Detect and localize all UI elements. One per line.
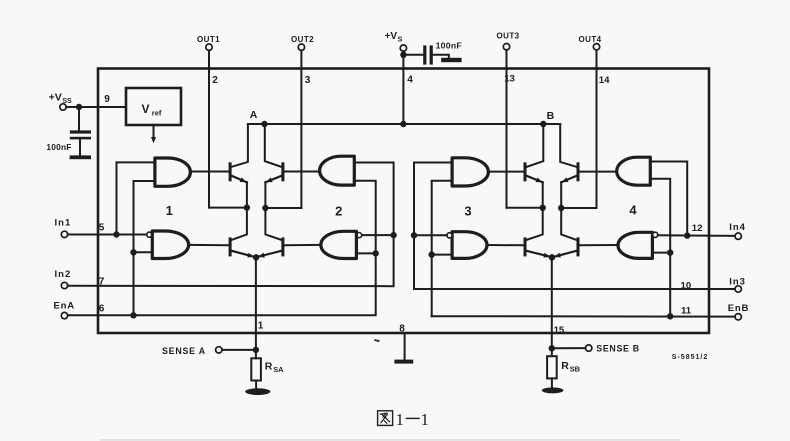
transistor Q8 (bridge B lower-right): [553, 237, 580, 257]
wire gate4-upper output to Q7 base: [580, 171, 617, 173]
svg-text:1: 1: [166, 203, 173, 218]
svg-text:9: 9: [104, 94, 110, 105]
junction +Vs cap tap: [400, 52, 406, 58]
svg-text:In4: In4: [729, 222, 746, 233]
AND gate 4 lower: [618, 232, 652, 258]
wire to resistor RSA: [255, 350, 257, 358]
wire mid-left down to Q2: [232, 208, 247, 240]
svg-text:1: 1: [421, 410, 430, 429]
svg-text:100nF: 100nF: [436, 40, 462, 50]
wire In3 inverted into gate3 lower: [414, 234, 447, 236]
label 100nF (top): [436, 40, 462, 50]
wire EnB feed block3: [432, 181, 452, 316]
wire OUT4 to bridge-B right node: [561, 207, 596, 209]
transistor Q7 (bridge B upper-right): [561, 162, 579, 182]
terminal OUT3: [497, 32, 520, 50]
svg-text:OUT4: OUT4: [579, 35, 602, 44]
junction bridge B bottom node: [549, 254, 555, 260]
svg-text:In1: In1: [55, 218, 72, 229]
wire sense B: [552, 347, 586, 349]
pin 7 label: [99, 277, 105, 288]
wire Vss to capacitor C1: [78, 107, 80, 130]
svg-text:OUT1: OUT1: [197, 35, 220, 44]
wire OUT2 pin3 vertical: [300, 50, 302, 208]
terminal SENSE A: [162, 346, 222, 356]
terminal EnA: [54, 301, 75, 319]
pin 4 label: [407, 75, 413, 86]
svg-text:4: 4: [629, 203, 637, 218]
junction bridge B mid-right (OUT4): [558, 205, 564, 211]
AND gate 3 upper: [452, 158, 488, 186]
wire capacitor C2 to ground: [433, 55, 449, 58]
wire gate2-lower output to Q4 base: [284, 244, 320, 246]
pin 2 label: [212, 75, 218, 86]
junction In2 feed at gate2 bubble line: [390, 232, 396, 238]
wire supply rail (A to B): [248, 123, 560, 125]
terminal In3: [729, 276, 746, 292]
wire +Vss to Vref pin9: [66, 106, 126, 108]
wire gate2-upper output to Q3 base: [284, 171, 319, 173]
pin 10 label: [681, 281, 692, 292]
drawing number S-5851/2: [672, 354, 708, 361]
wire In1 feed up to gate1 upper: [117, 162, 155, 234]
wire EnB tap into gate4 lower: [652, 252, 670, 254]
svg-text:2: 2: [212, 75, 218, 86]
pin 5 label: [99, 223, 105, 234]
svg-text:14: 14: [599, 75, 610, 86]
inverter bubble gate2 lower: [357, 233, 362, 238]
Vref output arrow: [151, 125, 156, 143]
AND gate 4 upper: [617, 157, 651, 185]
terminal In1: [55, 218, 72, 238]
wire B mid-right down to Q8: [561, 208, 576, 240]
wire +Vs pin4 vertical: [402, 51, 404, 124]
junction bridge A mid-right (OUT2): [262, 205, 268, 211]
AND gate 2 lower: [321, 231, 357, 258]
svg-text:+V: +V: [49, 92, 62, 104]
junction EnA feed to gate1: [130, 312, 136, 318]
svg-text:6: 6: [99, 304, 105, 315]
label 100nF (left): [46, 142, 71, 152]
wire mid-right down to Q4: [265, 208, 281, 240]
junction Vss cap tap: [76, 104, 82, 110]
svg-text:A: A: [250, 109, 258, 121]
block 3 label: [464, 204, 471, 219]
wire gate4-lower output to Q8 base: [580, 244, 618, 246]
pin 8 label: [399, 324, 405, 335]
junction EnA tap gate1 lower: [130, 249, 136, 255]
transistor Q1 (bridge A upper-left): [229, 162, 247, 182]
svg-text:SENSE A: SENSE A: [162, 346, 206, 356]
wire node B right branch: [543, 124, 576, 167]
AND gate 1 upper: [155, 158, 191, 186]
wire capacitor C1 to ground: [79, 139, 81, 155]
svg-text:3: 3: [464, 204, 471, 219]
terminal In4: [729, 222, 746, 239]
wire node A left branch: [232, 124, 265, 167]
junction In1 feed: [113, 231, 119, 237]
wire Q7 emitter down: [560, 182, 562, 208]
wire RSB to ground: [551, 378, 553, 388]
wire gate3-lower output to Q6 base: [487, 244, 524, 246]
inverter bubble gate4 lower: [653, 232, 658, 237]
wire pin8 to ground: [404, 334, 406, 359]
transistor Q2 (bridge A lower-left): [229, 237, 256, 257]
capacitor C2 100nF plates: [423, 45, 433, 64]
svg-text:2: 2: [335, 204, 342, 219]
svg-text:SA: SA: [273, 365, 284, 374]
junction supply rail at +Vs: [400, 121, 406, 127]
caption 图1-1: [378, 410, 429, 429]
junction EnB tap gate4 lower: [667, 249, 673, 255]
pin 14 label: [599, 75, 610, 86]
wire bridge B bottom to sense pin15: [551, 257, 553, 348]
capacitor C1 100nF plates: [70, 130, 91, 139]
wire node A center branch: [265, 124, 281, 167]
wire gate1-lower output to Q2 base: [189, 244, 229, 246]
wire RSA to ground: [255, 381, 257, 389]
svg-text:In2: In2: [55, 269, 72, 280]
svg-text:100nF: 100nF: [46, 142, 71, 152]
block 2 label: [335, 204, 342, 219]
terminal +Vs: [385, 31, 407, 51]
svg-text:4: 4: [407, 75, 413, 86]
terminal OUT2: [291, 35, 314, 51]
Vref block U1: [126, 88, 181, 125]
wire to resistor RSB: [551, 348, 553, 356]
svg-text:R: R: [561, 360, 569, 372]
wire node B center branch: [527, 124, 544, 167]
svg-text:10: 10: [681, 281, 692, 292]
svg-text:OUT3: OUT3: [497, 32, 520, 41]
junction EnB rail at En4 feed: [667, 313, 673, 319]
junction EnA tap gate2 lower: [373, 250, 379, 256]
wire to capacitor C2: [403, 54, 423, 56]
wire EnA rail pin6: [68, 181, 376, 315]
pin 9 label: [104, 94, 110, 105]
svg-text:1: 1: [396, 410, 405, 429]
junction sense A: [253, 347, 259, 353]
pin 3 label: [305, 75, 311, 86]
inverter bubble gate3 lower: [447, 233, 452, 238]
transistor Q6 (bridge B lower-left): [524, 237, 552, 257]
junction EnB tap gate3 lower: [429, 251, 435, 257]
svg-text:12: 12: [692, 223, 703, 234]
svg-text:R: R: [265, 361, 273, 373]
svg-text:OUT2: OUT2: [291, 35, 314, 44]
wire B mid-left down to Q6: [527, 208, 543, 240]
terminal EnB: [728, 303, 749, 320]
terminal OUT1: [197, 35, 220, 51]
terminal OUT4: [579, 35, 602, 50]
wire Q5 emitter down: [542, 182, 544, 208]
resistor RSA: [251, 358, 284, 380]
wire EnB feed block4: [650, 179, 670, 316]
svg-text:V: V: [142, 102, 150, 116]
wire OUT1 pin2 vertical: [208, 50, 210, 207]
terminal In2: [55, 269, 72, 289]
wire bridge A bottom to sense pin1: [255, 257, 257, 350]
svg-text:ref: ref: [152, 109, 162, 118]
resistor RSB: [547, 356, 580, 378]
AND gate 3 lower: [452, 232, 487, 259]
wire OUT3 to bridge-B left node: [507, 207, 543, 209]
wire EnA tap into gate1 lower: [134, 251, 153, 253]
svg-text:SB: SB: [570, 365, 580, 374]
svg-text:3: 3: [305, 75, 311, 86]
junction In4 feed: [684, 232, 690, 238]
wire EnB rail pin11: [432, 315, 735, 317]
svg-text:13: 13: [504, 74, 515, 85]
svg-text:S: S: [398, 37, 403, 44]
scan artifact bottom line: [100, 439, 680, 440]
junction bridge A mid-left (OUT1): [244, 204, 250, 210]
svg-text:1: 1: [258, 321, 264, 332]
pin 15 label: [554, 325, 565, 336]
wire gate1-upper output to Q1 base: [190, 171, 228, 173]
svg-text:SENSE B: SENSE B: [596, 344, 640, 354]
wire In4 feed up to gate4 upper: [650, 162, 687, 236]
junction bridge B mid-left (OUT3): [540, 205, 546, 211]
svg-text:EnA: EnA: [54, 301, 75, 312]
pin 13 label: [504, 74, 515, 85]
pin 12 label: [692, 223, 703, 234]
ground (left, C1): [70, 155, 91, 159]
svg-text:8: 8: [399, 324, 405, 335]
speck artifact: [374, 339, 380, 342]
svg-text:EnB: EnB: [728, 303, 749, 314]
block 1 label: [166, 203, 173, 218]
wire OUT2 to bridge-A right node: [265, 207, 301, 209]
ground (top, C2): [441, 58, 461, 62]
wire EnA feed up to gate1: [134, 181, 155, 315]
ground (pin 8): [394, 360, 413, 364]
block 4 label: [629, 203, 637, 218]
wire Q3 emitter down: [264, 182, 266, 208]
wire OUT4 pin14 vertical: [596, 50, 598, 208]
wire In2 inverted into gate2 lower: [362, 234, 394, 236]
svg-text:5: 5: [99, 223, 105, 234]
transistor Q5 (bridge B upper-left): [524, 162, 543, 182]
wire EnA tap into gate2 lower: [356, 252, 375, 254]
wire In3 feed: [414, 163, 735, 290]
transistor Q3 (bridge A upper-right): [265, 162, 284, 182]
wire In1 rail pin5: [68, 234, 147, 236]
junction In3 feed at gate3 bubble line: [411, 232, 417, 238]
pin 11 label: [681, 306, 692, 317]
AND gate 2 upper: [320, 156, 355, 185]
junction sense B: [549, 345, 555, 351]
wire In2 rail pin7: [68, 163, 394, 287]
wire OUT1 to bridge-A left node: [209, 207, 247, 209]
svg-text:15: 15: [554, 325, 565, 336]
wire Q1 emitter down: [246, 182, 248, 207]
node A: [250, 109, 268, 127]
svg-text:SS: SS: [62, 98, 72, 105]
wire sense A: [222, 349, 256, 351]
svg-text:B: B: [547, 110, 555, 122]
pin 1 label: [258, 321, 264, 332]
svg-text:S-5851/2: S-5851/2: [672, 354, 708, 361]
ground (sense B): [542, 387, 564, 393]
inverter bubble gate1 lower: [147, 232, 152, 237]
svg-text:11: 11: [681, 306, 692, 317]
node B: [540, 110, 555, 127]
terminal +Vss: [49, 92, 72, 111]
svg-text:In3: In3: [729, 276, 746, 287]
junction bridge A bottom node: [253, 254, 259, 260]
AND gate 1 lower: [152, 231, 188, 259]
wire gate3-upper output to Q5 base: [488, 171, 523, 173]
wire In4 rail pin12: [658, 234, 735, 237]
transistor Q4 (bridge A lower-right): [257, 237, 285, 257]
svg-text:+V: +V: [385, 31, 398, 42]
ground (sense A): [245, 388, 270, 395]
pin 6 label: [99, 304, 105, 315]
IC boundary box: [98, 69, 709, 334]
wire OUT3 pin13 vertical: [506, 50, 508, 208]
wire EnB tap into gate3 lower: [432, 254, 452, 256]
terminal SENSE B: [586, 344, 640, 354]
